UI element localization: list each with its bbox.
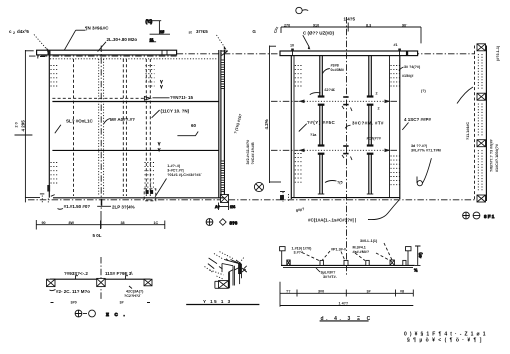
strip: X-box 3 [477, 140, 486, 147]
br section: left end post [280, 247, 286, 266]
right view: hook with circle symbol [417, 158, 431, 186]
left view: stud (dashed) [73, 59, 75, 196]
br section: deck line [281, 264, 415, 266]
right view: note 215 [325, 181, 343, 185]
br section: right end post [406, 247, 412, 266]
svg-text:?#C##.1%#B: ?#C##.1%#B [251, 142, 255, 164]
left view: small tick marks (plate 2) [160, 80, 162, 88]
left view: vertical dimension line [15, 50, 41, 202]
bottom centerline (dash-dot across both views) [28, 199, 475, 201]
svg-text:#15#(#: #15#(# [402, 74, 413, 78]
svg-text:3d ??.#?|: 3d ??.#?| [411, 144, 427, 148]
svg-text:4 1SC? ##P#: 4 1SC? ##P# [404, 117, 432, 122]
strip: X-box 2 [477, 93, 486, 100]
svg-text:3#L#?% #?1.T#M: 3#L#?% #?1.T#M [411, 149, 441, 153]
svg-text:G: G [252, 29, 256, 34]
svg-text:5 0L: 5 0L [93, 233, 102, 238]
svg-text:3#?#T#.: 3#?#T#. [323, 275, 337, 279]
svg-text:90: 90 [42, 221, 46, 225]
svg-text:A?: A? [215, 205, 221, 209]
bl section: X-box center [97, 278, 106, 286]
right view: upper arrow dimension [271, 92, 398, 112]
top centerline (dash-dot across both views) [29, 55, 177, 57]
svg-text:270: 270 [284, 23, 290, 27]
svg-text:90´: 90´ [402, 23, 408, 27]
right view: right outside note [402, 117, 431, 130]
left view: top-left leader text C2 [9, 29, 50, 52]
right view: leader note under dim [303, 31, 335, 50]
left view: label 11CY [152, 109, 190, 118]
svg-text:SL? #OxL1C: SL? #OxL1C [66, 119, 94, 124]
svg-text:d4xº6: d4xº6 [17, 29, 29, 34]
strip: bolt dots column 1 [478, 54, 482, 192]
svg-text:1C: 1C [154, 221, 159, 225]
iso: upper diagonals [220, 252, 234, 259]
left view: top leader text (plate) [64, 26, 109, 51]
svg-text:?(5: ?(5 [337, 181, 343, 185]
right view: bolts right side top [391, 66, 400, 87]
left view: bolts left edge top [51, 66, 59, 87]
left view: anchor detail bottom-left [40, 194, 55, 204]
svg-text:3#C?#M. #T#: 3#C?#M. #T# [352, 121, 384, 126]
br section: right mini dim [414, 246, 423, 273]
left view: left edge [48, 55, 50, 198]
svg-text:8W: 8W [69, 221, 75, 225]
svg-text:#3#8: #3#8 [331, 64, 339, 68]
left view: bottom dimension line [36, 220, 165, 238]
right view: bottom line [291, 197, 400, 199]
bl section: title [75, 310, 127, 317]
left view: top mini dimension (3/4) [146, 18, 171, 42]
svg-text:?#93S?<-.2: ?#93S?<-.2 [64, 271, 88, 276]
right view: top dimension line [281, 17, 421, 44]
left view: top-right leader text [189, 29, 227, 50]
svg-text:§¶µö¥<(¶ö·¥¶]: §¶µö¥<(¶ö·¥¶] [407, 338, 485, 344]
br section: deck stiffeners [287, 260, 406, 265]
svg-text:C (Ø?? UZ(#D): C (Ø?? UZ(#D) [303, 31, 334, 36]
strip: verticals [474, 46, 476, 200]
right view: note L-12 [310, 88, 336, 95]
svg-text:(#?3.1-1): (#?3.1-1) [496, 45, 500, 61]
left view: right bar top mark [221, 51, 228, 56]
svg-text:3#: 3# [120, 301, 124, 305]
br section: dimension tier 1 [280, 282, 413, 307]
br section: notes below deck [316, 268, 337, 279]
right view: left vertical dim [264, 46, 281, 184]
svg-text:0=#3M#: 0=#3M# [331, 68, 344, 72]
svg-text:2: 2 [378, 107, 380, 111]
left view: center cluster dotted pair [98, 59, 100, 196]
left view: stud pair with bolts [145, 59, 147, 196]
left view: bottom note with leader [58, 204, 135, 210]
strip: title circled marks [463, 212, 495, 219]
svg-text:?11.1#4#C: ?11.1#4#C [466, 122, 470, 140]
circled-X symbol between views [254, 182, 263, 191]
svg-text:3#0: 3#0 [71, 301, 77, 305]
svg-text:??: ?? [286, 290, 291, 294]
left view: top leader text (bolt note) [98, 37, 138, 52]
svg-text:Ξ C .: Ξ C . [106, 312, 127, 317]
svg-text:?#(Y) ##5C: ?#(Y) ##5C [307, 120, 336, 125]
right view: bolts left edge bottom [295, 154, 303, 183]
left view: top plate [37, 50, 177, 55]
svg-text:2: 2 [13, 31, 15, 35]
iso: X-brace bottom [219, 281, 229, 289]
svg-text:?1a: ?1a [310, 133, 317, 137]
svg-text:?01#1 #(-C>#3#?#4´: ?01#1 #(-C>#3#?#4´ [167, 173, 202, 177]
right view: right side 2-line note [411, 144, 441, 153]
svg-text:3#0-L.1(1): 3#0-L.1(1) [360, 239, 378, 243]
svg-text:1#: 1# [160, 30, 164, 34]
svg-text:Y 15 1 3: Y 15 1 3 [203, 299, 232, 304]
svg-text:#1: #1 [394, 43, 398, 47]
bl section: note below left [50, 289, 91, 294]
left view: rail dashed with arrow [52, 97, 147, 99]
svg-text:4 295: 4 295 [21, 120, 26, 132]
left view: bolts stud bottom [145, 163, 155, 188]
right view: note gusset top [323, 64, 344, 74]
right view: bolts right side bottom [391, 156, 400, 185]
svg-text:4?): 4?) [419, 252, 423, 258]
right view: right edge [399, 56, 401, 199]
left view: bolts stud top [146, 66, 155, 87]
svg-text:2 0: 2 0 [15, 122, 19, 127]
svg-text:(11CY 10. ?N): (11CY 10. ?N) [161, 109, 190, 114]
svg-text:38: 38 [121, 221, 125, 225]
br section: title [320, 316, 373, 322]
br section: leader diagonals [302, 243, 392, 261]
svg-text:3!?£5: 3!?£5 [196, 29, 208, 34]
svg-text:2L.30+.80 M2o: 2L.30+.80 M2o [107, 37, 138, 42]
right view: datum mark top-left [296, 7, 308, 13]
strip: leader curl [457, 87, 473, 104]
svg-text:8 F 1: 8 F 1 [484, 214, 495, 219]
svg-text:3#2.#<11.4#?#: 3#2.#<11.4#?# [246, 140, 250, 165]
left view: stud pair (dashed) [122, 59, 124, 196]
left view: 3-line note bottom right [155, 164, 203, 197]
right view: top plate [280, 51, 418, 56]
svg-text:3#: 3# [367, 290, 371, 294]
svg-text:#1#C#?.1£0#(?#: #1#C#?.1£0#(?# [495, 144, 499, 172]
svg-text:10: 10 [290, 44, 294, 48]
left view: label rail right [153, 95, 194, 100]
svg-text:1 4?5: 1 4?5 [344, 17, 356, 22]
left view: left edge bottom dark mark [47, 185, 50, 192]
svg-text:?#N?1t- 15: ?#N?1t- 15 [170, 95, 194, 100]
left view: label SLP inner [55, 119, 94, 134]
svg-text:#P1.3#-#: #P1.3#-# [331, 248, 346, 252]
right view: plate end piece [408, 51, 418, 56]
svg-text:3#0: 3#0 [318, 290, 324, 294]
left view: bottom note tick [101, 199, 103, 206]
svg-text:¶N 3#9&#C: ¶N 3#9&#C [85, 26, 109, 31]
right view: mid annotation center [345, 121, 384, 141]
right view: mid annotation left [299, 120, 336, 137]
left view: right end bar [220, 50, 222, 200]
svg-text:#a#.#M#?: #a#.#M#? [353, 250, 370, 254]
left view: right bar hatch bottom [221, 161, 225, 192]
right view: stud A [320, 56, 323, 194]
svg-text:1%: 1% [230, 205, 236, 209]
right view: squiggle note bottom-left [295, 207, 305, 213]
svg-text:8.3: 8.3 [366, 23, 371, 27]
svg-text:11S# F?9E 3\: 11S# F?9E 3\ [105, 271, 133, 276]
svg-text:#C#(#?#: #C#(#?# [367, 137, 381, 141]
bl section: note below right 2 lines [124, 286, 144, 298]
right view: bottom note with squiggle leader [308, 200, 400, 223]
svg-text:M# A0#?.#?: M# A0#?.#? [110, 117, 135, 122]
left view: vertical centerline [100, 46, 102, 211]
iso: title [186, 299, 259, 305]
left view: section title (circled marks) [206, 219, 238, 226]
iso: top right dots [240, 257, 245, 263]
bl section: X-box right [144, 279, 152, 286]
strip: X-box 4 [477, 195, 486, 202]
svg-text:2: 2 [376, 92, 378, 96]
bl section: small ticks on line [76, 276, 129, 280]
left view: rail solid lower [52, 149, 218, 151]
svg-text:1-#?:.#|: 1-#?:.#| [167, 164, 180, 168]
svg-text:1 4??: 1 4?? [339, 302, 349, 306]
svg-text:?C2?H?2´: ?C2?H?2´ [124, 294, 142, 298]
left view: label M# inner [104, 117, 135, 124]
right view: anchor detail bottom-left [280, 192, 289, 203]
bl section: X-box left [47, 279, 56, 286]
left view: plate left end hook [38, 55, 45, 59]
iso: verticals [229, 272, 230, 288]
left view: right bar hatch top [221, 60, 225, 89]
right view: stud B [369, 56, 372, 194]
svg-text:#2- 2C. 11? M?o: #2- 2C. 11? M?o [56, 289, 90, 294]
br section: dimension tier 2 [280, 302, 413, 306]
left view: rail solid upper [52, 101, 218, 103]
left view: right bar bottom X-box [221, 195, 229, 203]
svg-text:3# ?4(?#): 3# ?4(?#) [404, 65, 421, 69]
strip: X-box 1 [477, 44, 486, 51]
svg-text:910: 910 [313, 23, 319, 27]
svg-text:#8: #8 [400, 290, 404, 294]
right view: right inner edge [389, 56, 391, 198]
svg-text:2LP 3?(4%: 2LP 3?(4% [112, 205, 135, 210]
svg-text:£2?4£: £2?4£ [325, 88, 336, 92]
bl section: centerline [100, 257, 102, 301]
iso: back diagonals [222, 260, 242, 278]
svg-text:3-#C?.#7|: 3-#C?.#7| [167, 169, 183, 173]
svg-text:3.#?<.: 3.#?<. [294, 251, 305, 255]
right view: vertical centerline [346, 17, 348, 276]
right view: bolts left edge top [295, 66, 303, 87]
bl section: main line [50, 278, 150, 280]
svg-text:#C(1#A(1.-.1s#C#1?#| |: #C(1#A(1.-.1s#C#1?#| | [308, 218, 356, 223]
left view: X-box mini dim [215, 203, 236, 211]
left view: right edge [218, 50, 220, 198]
left view: bolts left edge bottom [51, 163, 59, 184]
left view: bottom line [53, 197, 224, 199]
left view: stud bottom anchor box [144, 189, 156, 201]
svg-text:#1.#1.50 #0?: #1.#1.50 #0? [64, 204, 91, 209]
svg-text:8?6: 8?6 [230, 221, 238, 226]
svg-text:(?): (?) [421, 89, 426, 93]
svg-text:4.2%: 4.2% [264, 119, 269, 129]
left view: dotted line under plate [50, 58, 218, 60]
svg-text:0)¥§1F¶4t·-Z1ø1: 0)¥§1F¶4t·-Z1ø1 [404, 332, 489, 338]
svg-text:?#B?#?.? ?3 ##(##: ?#B?#?.? ?3 ##(## [490, 139, 494, 172]
left view: label 60 with bent leader [177, 123, 198, 136]
right view: lower arrow dimension [271, 144, 398, 160]
svg-text:60: 60 [191, 123, 197, 128]
right view: left edge double [290, 56, 292, 199]
